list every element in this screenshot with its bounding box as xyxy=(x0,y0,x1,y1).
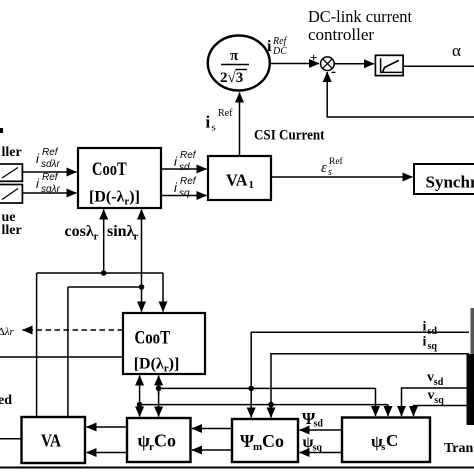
svg-text:ε: ε xyxy=(321,160,327,176)
wire speed input into CooT2 left xyxy=(0,356,123,358)
svg-text:r: r xyxy=(134,231,139,243)
svg-text:s: s xyxy=(212,122,216,134)
svg-text:i: i xyxy=(206,113,211,132)
gain block ellipse pi/(2*sqrt3) xyxy=(208,36,270,91)
block Psi-m-Co xyxy=(232,419,298,462)
wire feedback into summer from right xyxy=(327,72,474,117)
svg-text:1: 1 xyxy=(249,179,255,191)
label cos lambda r xyxy=(65,223,99,243)
node cos junction xyxy=(101,270,107,276)
wire sin vertical into CooT1 bottom xyxy=(141,210,143,288)
svg-text:VA: VA xyxy=(226,171,248,190)
svg-text:sdλr: sdλr xyxy=(41,159,60,170)
wire bus1 horizontal y388 xyxy=(159,387,376,389)
wire sin vertical down into CooT2 top xyxy=(141,287,143,312)
summing junction xyxy=(310,50,336,80)
wire CooT1 out2 to VA1 xyxy=(161,195,207,197)
svg-text:CooT: CooT xyxy=(92,159,127,180)
svg-text:Synchro: Synchro xyxy=(426,173,474,192)
svg-text:Co: Co xyxy=(154,431,176,451)
wire cos branch down into CooT2 top xyxy=(162,273,164,312)
svg-text:sd: sd xyxy=(179,162,190,173)
svg-text:sq: sq xyxy=(179,188,190,199)
wire CooT2 bottom vertical 2 (double arrow) xyxy=(156,376,162,417)
limiter block 1 xyxy=(0,164,22,181)
label isd xyxy=(423,320,438,338)
label sin lambda r xyxy=(107,223,139,243)
svg-text:Ref: Ref xyxy=(329,156,344,167)
wire psirCo to VA out2 xyxy=(87,452,128,454)
svg-text:+: + xyxy=(310,50,317,65)
label isq Ref (VA1 input 2) xyxy=(174,176,197,199)
block psi-r-Co xyxy=(127,418,191,462)
svg-text:[D(λr)]: [D(λr)] xyxy=(134,356,180,375)
wire limiter2 to CooT1 xyxy=(22,192,76,194)
svg-text:-: - xyxy=(331,64,336,80)
label iDC Ref xyxy=(267,36,288,57)
svg-text:Tran: Tran xyxy=(444,441,474,456)
wire controller output alpha xyxy=(403,65,474,67)
svg-text:α: α xyxy=(452,41,461,60)
wire vsq feedback xyxy=(414,406,468,417)
svg-text:sq: sq xyxy=(428,341,438,352)
svg-text:sd: sd xyxy=(428,326,438,337)
svg-text:[D(-λr)]: [D(-λr)] xyxy=(89,189,140,208)
block CooT D(-lambda r) xyxy=(78,148,161,208)
svg-text:CSI Current: CSI Current xyxy=(254,128,325,144)
label vsd xyxy=(427,370,444,388)
label isq xyxy=(423,335,438,353)
svg-text:i: i xyxy=(423,335,427,350)
wire sin branch down to VA top xyxy=(67,287,69,417)
wire sin horizontal bus xyxy=(68,286,142,288)
wire input into VA left xyxy=(0,438,22,440)
label psi-sq xyxy=(303,434,323,454)
wire psisC to PsimCo out1 xyxy=(300,429,343,431)
controller block with limiter curve xyxy=(375,55,403,75)
wire psisC to PsimCo out2 xyxy=(300,452,343,454)
wire bus1 branch down into PsiSC xyxy=(375,388,377,416)
svg-text:C: C xyxy=(386,431,398,450)
block CooT D(lambda r) xyxy=(123,313,205,375)
label vsq xyxy=(428,388,445,406)
svg-text:DC-link current: DC-link current xyxy=(308,7,412,26)
label is Ref xyxy=(206,108,234,134)
wire isq feedback xyxy=(268,354,469,418)
svg-text:sd: sd xyxy=(434,377,444,388)
svg-text:sinλ: sinλ xyxy=(107,223,135,240)
wire VA1 top to ellipse xyxy=(239,93,241,157)
svg-text:i: i xyxy=(423,320,427,335)
block psi-s-C xyxy=(342,418,430,463)
svg-text:cosλ: cosλ xyxy=(65,223,94,240)
block Synchr xyxy=(414,164,474,194)
svg-text:ller: ller xyxy=(2,223,22,238)
wire cos branch down to VA top xyxy=(36,273,38,417)
svg-text:r: r xyxy=(94,231,99,243)
left text fragment top xyxy=(0,128,3,133)
wire VA1 to Synchr xyxy=(271,176,413,178)
svg-text:m: m xyxy=(253,441,262,453)
wire bus2 horizontal y404 xyxy=(140,404,388,406)
wire psirCo to VA out1 xyxy=(87,426,128,428)
wire CooT2 bottom vertical 1 (double arrow) xyxy=(137,376,143,417)
svg-text:sq: sq xyxy=(434,395,444,406)
svg-text:CooT: CooT xyxy=(135,328,171,349)
title text DC-link current controller xyxy=(308,7,412,44)
wire cos horizontal bus xyxy=(37,272,163,274)
wire summer to controller block xyxy=(334,63,374,65)
wire bus2 branch down into PsiSC xyxy=(387,405,389,416)
wire ellipse to summer xyxy=(270,63,319,65)
svg-text:Ψ: Ψ xyxy=(240,431,254,451)
block VA1 xyxy=(208,156,271,200)
bottom long wire xyxy=(0,467,474,469)
svg-text:sq: sq xyxy=(313,443,323,454)
wire cos vertical into CooT1 bottom xyxy=(103,210,105,274)
svg-text:controller: controller xyxy=(308,25,374,44)
limiter block 2 xyxy=(0,185,22,204)
transducer grey bar xyxy=(471,308,474,355)
svg-text:ller: ller xyxy=(2,145,22,160)
svg-text:ed: ed xyxy=(0,393,12,408)
label epsilon-s Ref xyxy=(321,156,344,178)
svg-text:DC: DC xyxy=(272,46,287,57)
svg-text:π: π xyxy=(230,48,239,64)
wire isd feedback xyxy=(248,332,469,417)
wire PsimCo to psirCo out2 xyxy=(192,449,232,451)
svg-text:i: i xyxy=(267,38,272,55)
svg-text:Ref: Ref xyxy=(218,108,233,119)
label isd-lambda-r Ref xyxy=(36,147,60,170)
svg-text:Ref: Ref xyxy=(180,176,197,187)
label isd Ref (VA1 input 1) xyxy=(174,150,197,173)
block VA xyxy=(22,417,86,463)
svg-text:2√3: 2√3 xyxy=(220,70,243,86)
svg-text:VA: VA xyxy=(41,431,61,451)
svg-text:Ref: Ref xyxy=(180,150,197,161)
svg-text:sqλr: sqλr xyxy=(41,184,60,195)
transducer black bar xyxy=(467,354,474,425)
svg-text:sd: sd xyxy=(314,419,324,430)
wire dashed delta-lambda-r output xyxy=(23,329,124,331)
svg-text:∆λr: ∆λr xyxy=(0,326,14,338)
svg-text:s: s xyxy=(328,167,332,178)
wire PsimCo to psirCo out1 xyxy=(192,428,232,430)
svg-text:Co: Co xyxy=(262,431,284,451)
label isq-lambda-r Ref xyxy=(36,172,60,195)
label Psi-sd xyxy=(302,409,323,430)
wire limiter1 to CooT1 xyxy=(22,171,76,173)
node sin junction xyxy=(139,284,145,290)
svg-text:Ref: Ref xyxy=(42,147,59,158)
svg-text:Ref: Ref xyxy=(42,172,59,183)
wire CooT1 out1 to VA1 xyxy=(161,168,207,170)
wire vsd feedback xyxy=(402,388,468,416)
